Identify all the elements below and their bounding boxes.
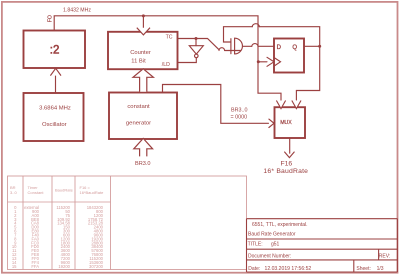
svg-text:16*BaudRate: 16*BaudRate — [80, 190, 105, 195]
svg-text:MUX: MUX — [280, 120, 292, 126]
svg-text:19200: 19200 — [58, 264, 70, 269]
svg-text:307200: 307200 — [89, 264, 104, 269]
svg-text:3.6864 MHz: 3.6864 MHz — [39, 106, 71, 112]
svg-text:Baud Rate Generator: Baud Rate Generator — [248, 231, 296, 237]
svg-text:g51: g51 — [271, 242, 280, 248]
svg-text:Oscillator: Oscillator — [42, 122, 67, 128]
svg-text:Counter: Counter — [130, 50, 151, 56]
svg-text:16* BaudRate: 16* BaudRate — [263, 168, 308, 175]
svg-text:TITLE:: TITLE: — [248, 242, 263, 248]
svg-text:BaudRate: BaudRate — [55, 188, 74, 193]
svg-text:1.8432 MHz: 1.8432 MHz — [63, 8, 91, 14]
svg-text:= 0000: = 0000 — [231, 115, 248, 121]
svg-text:constant: constant — [127, 104, 150, 110]
svg-text:FFA: FFA — [31, 264, 39, 269]
svg-text:BR3.0: BR3.0 — [135, 161, 151, 167]
svg-text:Q: Q — [292, 45, 297, 51]
svg-text:REV:: REV: — [379, 253, 390, 259]
svg-text:D: D — [277, 45, 282, 51]
svg-text::2: :2 — [50, 45, 60, 57]
svg-text:F16: F16 — [280, 160, 292, 167]
svg-text:1/3: 1/3 — [377, 266, 384, 272]
svg-text:generator: generator — [126, 121, 151, 127]
svg-text:11 Bit: 11 Bit — [131, 59, 146, 65]
svg-text:3..0: 3..0 — [10, 190, 17, 195]
svg-text:FO: FO — [48, 15, 54, 22]
svg-text:15: 15 — [12, 264, 17, 269]
svg-text:/LD: /LD — [162, 62, 170, 68]
svg-text:BR3..0: BR3..0 — [231, 107, 247, 113]
svg-text:Date:: Date: — [248, 266, 260, 272]
svg-text:12.03.2019 17:56:52: 12.03.2019 17:56:52 — [265, 266, 312, 272]
svg-text:TC: TC — [166, 35, 173, 41]
svg-text:6551, TTL, experimental.: 6551, TTL, experimental. — [252, 222, 308, 228]
svg-text:Constant: Constant — [28, 190, 45, 195]
svg-text:Document Number:: Document Number: — [248, 253, 291, 259]
svg-text:Sheet:: Sheet: — [356, 266, 370, 272]
